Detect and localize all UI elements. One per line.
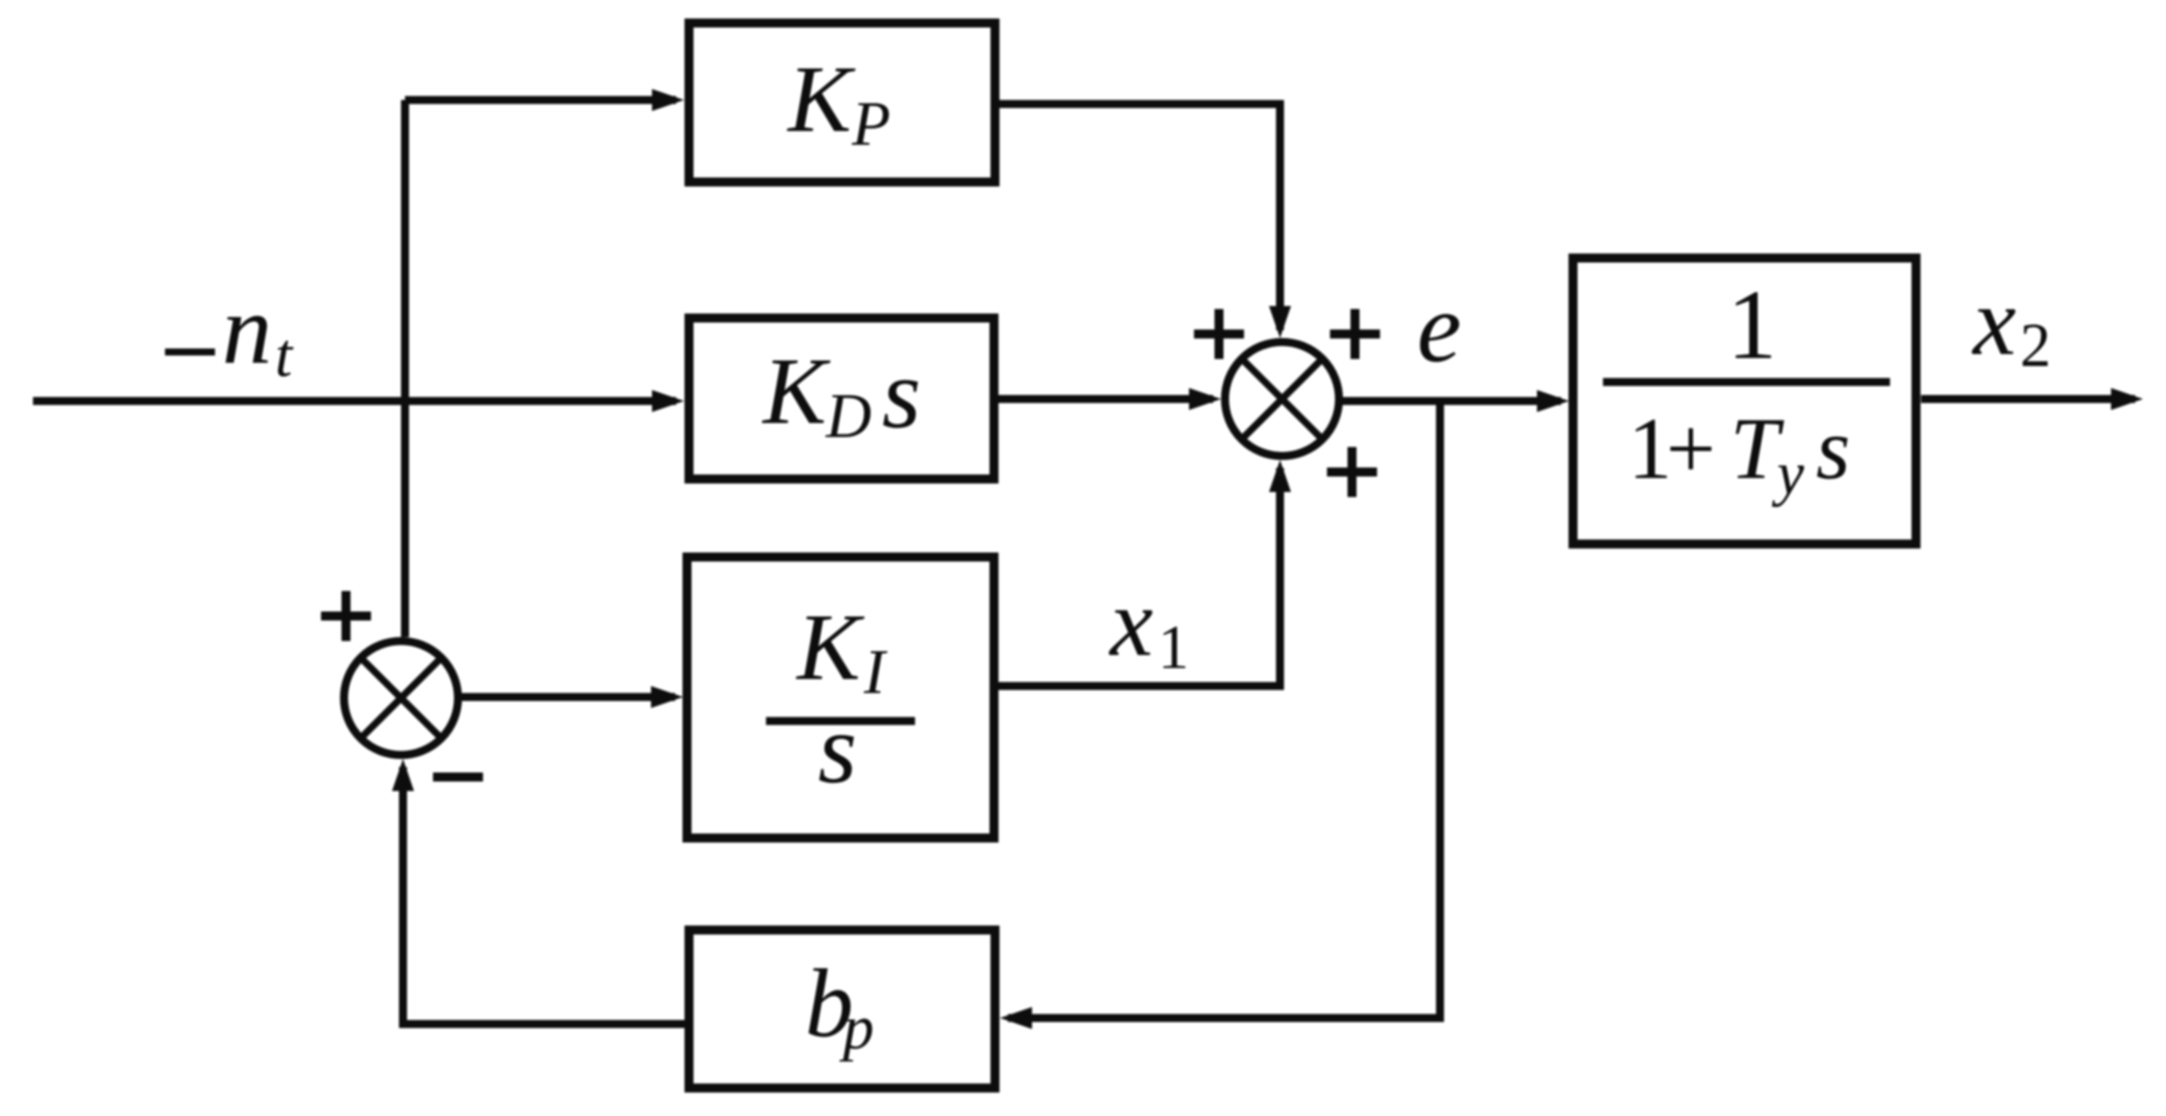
sign + upper-right of S2 <box>1330 309 1380 359</box>
svg-text:p: p <box>839 994 874 1062</box>
sign + upper-left of S1 <box>321 591 371 641</box>
sign + upper-left of S2 <box>1194 309 1244 359</box>
summer S2 X cross <box>1242 359 1322 439</box>
svg-text:n: n <box>222 274 272 385</box>
arrowhead into summer S2 left <box>1189 388 1221 410</box>
node: input branch junction vertical line <box>401 100 409 637</box>
node: e branch down <box>1008 401 1440 1018</box>
svg-text:K: K <box>786 46 856 152</box>
arrowhead output x2 <box>2111 388 2143 410</box>
svg-text:+: + <box>1666 401 1716 498</box>
svg-text:x: x <box>1108 569 1153 676</box>
svg-text:e: e <box>1417 272 1461 383</box>
summer S1 X cross <box>361 658 441 738</box>
wire: summer S2 output e to transfer block <box>1339 397 1561 405</box>
wire: input -n_t horizontal into KD s <box>33 397 676 405</box>
svg-text:2: 2 <box>2020 312 2051 380</box>
svg-text:P: P <box>851 89 890 159</box>
wire: bp output left then up into summer S1 bottom <box>403 767 685 1024</box>
arrowhead up into summer S1 bottom <box>392 759 414 791</box>
wire: summer S1 output to KI/s <box>458 693 675 701</box>
fraction bar of transfer block <box>1603 378 1890 386</box>
svg-text:1: 1 <box>1158 614 1189 682</box>
svg-text:K: K <box>795 594 865 700</box>
wire: branch up to KP <box>405 96 676 104</box>
wire: KP output right then down to summer S2 <box>999 104 1280 330</box>
block bp <box>689 930 995 1088</box>
fraction bar of KI/s <box>766 717 915 725</box>
arrowhead into block KD s <box>652 390 684 412</box>
arrowhead down into summer S2 <box>1269 306 1291 338</box>
summer S2 circle <box>1225 342 1339 456</box>
svg-text:t: t <box>275 322 294 390</box>
arrowhead up into summer S2 bottom <box>1269 460 1291 492</box>
block KI/s <box>687 557 994 838</box>
svg-text:y: y <box>1771 441 1805 508</box>
sign - lower-right of S1 <box>433 773 483 782</box>
arrowhead into transfer block <box>1537 390 1569 412</box>
svg-text:D: D <box>825 381 872 451</box>
wire: KD s output to summer S2 <box>998 395 1213 403</box>
svg-text:I: I <box>863 637 888 707</box>
svg-text:1: 1 <box>1727 269 1777 380</box>
svg-text:s: s <box>818 693 857 804</box>
sign - of label -n_t <box>165 349 215 356</box>
svg-text:s: s <box>1816 401 1850 498</box>
wire: KI/s output x1 right then up into summer S2 bottom <box>998 468 1280 686</box>
svg-text:K: K <box>761 338 831 444</box>
svg-text:s: s <box>882 338 921 449</box>
arrowhead left into block bp <box>1000 1007 1032 1029</box>
block KP <box>689 23 995 182</box>
arrowhead into block KP <box>652 89 684 111</box>
sign + lower-right of S2 <box>1327 447 1377 497</box>
svg-text:x: x <box>1971 268 2016 375</box>
block 1/(1+Ty s) <box>1573 258 1916 544</box>
arrowhead into block KI/s <box>651 686 683 708</box>
summer S1 circle <box>344 641 458 755</box>
block KD s <box>689 318 994 479</box>
wire: output x2 <box>1921 395 2135 403</box>
